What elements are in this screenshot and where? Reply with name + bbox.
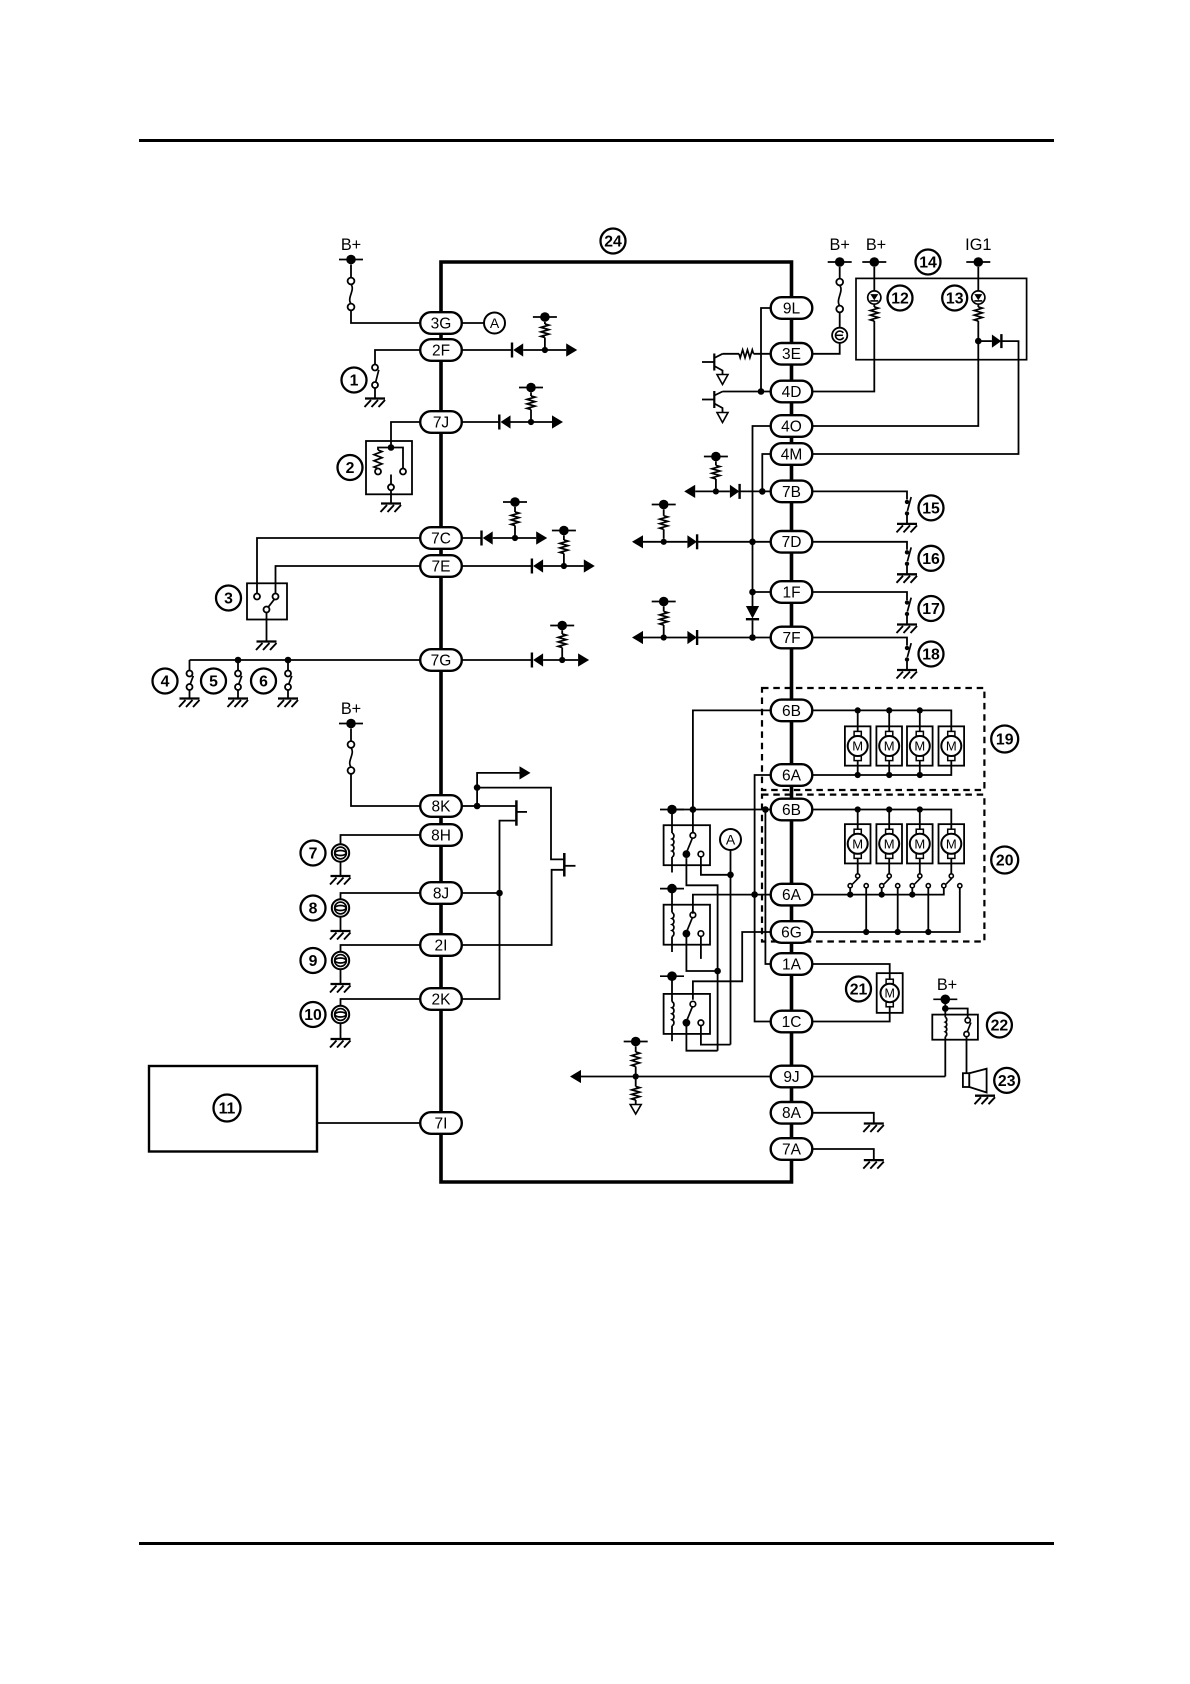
svg-text:10: 10	[304, 1007, 322, 1024]
svg-text:6B: 6B	[782, 703, 801, 720]
svg-text:B+: B+	[937, 976, 957, 994]
pull-up resistor on 2F line	[544, 322, 546, 324]
control unit 24 outline bus	[441, 262, 792, 1182]
component 10 callout	[301, 1002, 326, 1027]
svg-text:9: 9	[309, 953, 318, 970]
pin 7A (right 19)	[771, 1138, 813, 1160]
return junction motor 3 group 19	[917, 772, 923, 778]
diode arrow on 7F line	[664, 637, 688, 639]
feed stub motor 1 group 19	[857, 710, 859, 731]
wire pin 8A to ground	[812, 1113, 874, 1123]
svg-text:8H: 8H	[431, 827, 451, 844]
transistor Q2 plate	[563, 853, 566, 877]
svg-text:9L: 9L	[783, 300, 801, 317]
pull-up resistor on 7G line	[561, 630, 563, 634]
component 13 callout	[942, 286, 967, 311]
svg-text:B+: B+	[341, 700, 361, 718]
wire pin 6B group19 down to relay feed	[693, 710, 771, 809]
svg-text:15: 15	[922, 500, 940, 517]
svg-text:11: 11	[219, 1101, 236, 1118]
relay 1 box	[664, 825, 710, 865]
ground below switch 6	[278, 697, 298, 699]
svg-text:7B: 7B	[782, 484, 801, 501]
pin 2K	[420, 988, 462, 1010]
wire pin 9L down to 4D junction	[761, 308, 771, 392]
pull-up resistor on 7J line	[530, 392, 532, 396]
left arrow on 7B line	[684, 485, 695, 498]
ground below lamp 8	[331, 930, 351, 932]
wire B+ to connector 2	[350, 729, 352, 742]
svg-text:16: 16	[922, 551, 940, 568]
wire pin 2F to switch 1	[375, 350, 420, 365]
svg-text:7E: 7E	[432, 558, 451, 575]
pin 6B (right 10)	[771, 700, 813, 722]
power feed on 7D line	[652, 504, 676, 506]
component 7 callout	[301, 841, 326, 866]
transistor Q1 source stub	[516, 811, 527, 813]
junction 6A lines	[751, 891, 758, 898]
svg-text:19: 19	[996, 732, 1014, 749]
ground below lamp 7	[331, 875, 351, 877]
svg-text:12: 12	[891, 291, 909, 308]
motor M1 group 20	[845, 824, 871, 863]
pin 1F (right 8)	[771, 581, 813, 603]
pin 4M (right 5)	[771, 443, 813, 465]
svg-text:6B: 6B	[782, 802, 801, 819]
junction at 1F	[749, 589, 756, 596]
power feed on 7E line	[552, 530, 576, 532]
svg-text:1C: 1C	[782, 1014, 802, 1031]
svg-text:4O: 4O	[781, 418, 802, 435]
power feed on 7B line	[704, 456, 728, 458]
pin 6A wire to switch throws group 20	[812, 888, 944, 895]
relay 1 power feed	[660, 809, 684, 811]
junction motor 2 group 20	[886, 806, 892, 812]
resistor under LED 12	[873, 304, 875, 307]
svg-text:M: M	[914, 739, 925, 754]
Q2 emitter arrow	[714, 404, 722, 413]
wire B+ to connector	[350, 265, 352, 279]
wire relay 1 NO to A rail	[701, 857, 731, 875]
svg-text:9J: 9J	[783, 1069, 799, 1086]
component 19 callout	[991, 726, 1018, 753]
wire pin to switch 18	[812, 638, 907, 646]
6A stub motor 2 group 20	[881, 888, 883, 895]
svg-text:7A: 7A	[782, 1141, 802, 1158]
svg-text:20: 20	[996, 853, 1014, 870]
left arrow on 9J line	[570, 1070, 581, 1083]
switch 18 contacts	[905, 646, 909, 650]
wire pin 4M to 7B junction	[762, 454, 770, 491]
junction at 7B	[759, 488, 766, 495]
return stub motor 3 group 19	[919, 760, 921, 775]
right arrow on 7C line	[515, 537, 536, 539]
component 11 callout	[214, 1095, 241, 1122]
left arrow on 7D line	[632, 535, 643, 548]
motor M2 group 19	[876, 726, 902, 765]
pin 9J wire	[581, 1076, 771, 1078]
junction on 7J line	[528, 419, 534, 425]
wire junction down to pin 1A	[765, 810, 770, 965]
pin 2I	[420, 934, 462, 956]
feed stub motor 3 group 19	[919, 710, 921, 731]
diode between 1F and 7F	[752, 592, 754, 606]
wire pin 8J to lamp 8	[341, 893, 421, 899]
changeover switch of motor 3 group 20	[919, 858, 921, 873]
wire pin 7A to ground	[812, 1149, 874, 1159]
pin 1A (right 15)	[771, 953, 813, 975]
component 12 callout	[888, 286, 913, 311]
pull-up resistor on 7C line	[514, 507, 516, 512]
wire clock spring to pin 3E	[812, 343, 839, 354]
junction on 7D line	[661, 539, 667, 545]
junction on 7F line	[661, 634, 667, 640]
pin 6G wire to switch throws group 20	[812, 888, 960, 932]
open arrow to ground on 9J line	[635, 1100, 637, 1105]
wire pin 1F	[753, 591, 771, 593]
wire diode to pin 4M	[812, 341, 1018, 454]
svg-text:7F: 7F	[782, 630, 800, 647]
wire to pin 7B	[740, 490, 771, 492]
internal 2F wire to junction	[523, 349, 545, 351]
svg-text:22: 22	[991, 1018, 1009, 1035]
pin 6A wire from motor group 19	[812, 760, 951, 775]
switch 5	[237, 660, 239, 671]
transistor Q1 at pin 3E	[713, 354, 715, 371]
wire pin 2K to lamp 10	[341, 999, 421, 1006]
wire relay 3 common to common rail	[686, 1025, 717, 1051]
relay 2 NO stub	[700, 937, 702, 959]
transistor Q2 source stub	[564, 865, 575, 867]
6A stub motor 1 group 20	[849, 888, 851, 895]
pin 1C (right 16)	[771, 1011, 813, 1033]
svg-text:24: 24	[604, 234, 622, 251]
power feed on 7G line	[550, 625, 574, 627]
ground at 8A	[864, 1122, 884, 1124]
junction switch 6	[285, 657, 292, 664]
component 17 callout	[919, 596, 944, 621]
pin 6B wire to motor group 19	[812, 710, 951, 731]
component 21 callout	[846, 977, 871, 1002]
pin 6B wire to motor group 20	[812, 810, 951, 830]
relay 22 contact feed	[945, 1009, 967, 1018]
clock spring connector	[832, 328, 847, 343]
changeover switch of motor 1 group 20	[857, 858, 859, 873]
component 4 callout	[153, 669, 178, 694]
wire 7D junction to 1F junction	[752, 542, 754, 592]
wire pin 8K to junction	[462, 805, 477, 807]
component 23 callout	[994, 1068, 1019, 1093]
wire IG1 to LED 13	[977, 267, 979, 291]
lamp 7	[332, 844, 349, 861]
svg-text:6G: 6G	[781, 924, 802, 941]
junction on 7E line	[561, 563, 567, 569]
svg-text:B+: B+	[866, 236, 886, 254]
lamp 9	[332, 952, 349, 969]
relay 3 box	[664, 994, 710, 1034]
junction relay 22 feed	[942, 1005, 949, 1012]
relay 22 box	[932, 1015, 978, 1040]
relay 1 coil stub	[671, 857, 673, 873]
ground below switch 15	[897, 523, 917, 525]
wire pin to switch 17	[812, 592, 907, 600]
internal line from pin 2F: bar and left arrow	[462, 349, 512, 351]
wire pin 7J to component 2	[391, 422, 420, 445]
component 2 resistor branch	[378, 448, 391, 451]
svg-text:1A: 1A	[782, 956, 802, 973]
feed stub motor 1 group 20	[857, 810, 859, 830]
wire component 2 to ground	[390, 490, 392, 502]
junction motor 3 group 20	[917, 806, 923, 812]
component 2 callout	[338, 455, 363, 480]
pin 4O (right 4)	[771, 415, 813, 437]
relay 3 contacts	[690, 1001, 696, 1007]
component 2 pole	[390, 475, 392, 485]
pin 3E (right 2)	[771, 343, 813, 365]
internal arrow from 8K	[477, 773, 519, 788]
pin 8A (right 18)	[771, 1102, 813, 1124]
pin 7D (right 7)	[771, 531, 813, 553]
pull-up resistor on 7B line	[715, 461, 717, 465]
6G stub motor 2 group 20	[897, 888, 899, 932]
svg-text:M: M	[884, 987, 894, 1001]
speaker 23	[963, 1073, 969, 1087]
ground below lamp 10	[331, 1038, 351, 1040]
ground below switch 18	[897, 669, 917, 671]
pull-up resistor on 7F line	[663, 606, 665, 611]
ground below switch 16	[897, 573, 917, 575]
wire relay 1 top contact	[692, 810, 694, 833]
internal 7E wire to junction	[543, 565, 564, 567]
relay 3 power feed	[660, 975, 684, 977]
inline connector (2 terminals) on B+ feed	[350, 284, 353, 303]
6G stub motor 3 group 20	[927, 888, 929, 932]
return stub motor 1 group 19	[857, 760, 859, 775]
indicator LED 13	[972, 291, 985, 304]
switch 16 contacts	[905, 550, 909, 554]
B+ feed 12 power symbol	[862, 261, 886, 263]
svg-text:B+: B+	[341, 236, 361, 254]
switch 15 contacts	[905, 500, 909, 504]
A rail wire	[730, 850, 732, 1045]
component 20 callout	[991, 847, 1018, 874]
dashed box unit 20	[762, 795, 984, 942]
component 22 callout	[987, 1013, 1012, 1038]
wire component 3 to ground	[266, 613, 268, 641]
wire junction up	[476, 788, 478, 806]
6A stub motor 3 group 20	[911, 888, 913, 895]
feed stub motor 3 group 20	[919, 810, 921, 830]
ground below speaker	[975, 1095, 995, 1097]
relay 2 contacts	[690, 912, 696, 918]
junction motor 2 group 19	[886, 707, 892, 713]
lamp 10	[332, 1006, 349, 1023]
pin 7G	[420, 649, 462, 671]
junction of 8J on gate line	[496, 890, 503, 897]
wire connector to pin 8K	[351, 774, 420, 806]
indicator LED 12	[868, 291, 881, 304]
pin 7I	[420, 1112, 462, 1134]
junction at 7F	[749, 634, 756, 641]
svg-text:8: 8	[309, 901, 318, 918]
relay 3 coil stub	[671, 1026, 673, 1042]
relay 2 coil	[671, 892, 673, 913]
wire pin 1A to motor 21	[812, 964, 889, 980]
relay 2 coil stub	[671, 937, 673, 953]
inline connector on 8K feed	[350, 748, 353, 767]
power feed on 7C line	[503, 501, 527, 503]
right arrow on 7G line	[562, 659, 578, 661]
B+ feed 3E power symbol	[828, 261, 852, 263]
left arrow on 7F line	[632, 631, 643, 644]
motor M4 group 20	[939, 824, 965, 863]
svg-text:2F: 2F	[432, 342, 450, 359]
junction on 7C line	[512, 535, 518, 541]
ground below switch 4	[180, 697, 200, 699]
pin 6G wire to relay 3 top contact	[693, 932, 771, 1000]
internal 7G wire to junction	[543, 659, 562, 661]
diode arrow on 7B line	[716, 490, 730, 492]
internal line from pin 7G: bar and left arrow	[462, 659, 532, 661]
internal 7C wire to junction	[493, 537, 515, 539]
svg-text:M: M	[852, 836, 863, 851]
B+ feed top-left power symbol	[339, 259, 363, 261]
IG1 power symbol	[966, 261, 990, 263]
base resistor of Q1	[723, 353, 740, 355]
pin 6A2 wire to relay 2 top contact	[693, 895, 771, 914]
junction motor 1 group 20	[855, 806, 861, 812]
changeover switch of motor 4 group 20	[950, 858, 952, 873]
wire LED 13 to junction	[977, 321, 979, 338]
B+ feed mid-left power symbol	[339, 723, 363, 725]
svg-text:3G: 3G	[431, 315, 452, 332]
relay 22 coil	[944, 1009, 946, 1018]
wire junction down to pin 4O	[812, 341, 978, 426]
6G stub motor 1 group 20	[865, 888, 867, 932]
svg-text:3E: 3E	[782, 346, 801, 363]
wire relay 22 coil to pin 9J	[944, 1037, 946, 1077]
junction on 9J line	[633, 1073, 639, 1079]
relay 2 box	[664, 905, 710, 945]
component 9 callout	[301, 948, 326, 973]
wire pin 8J to gate line	[462, 892, 500, 894]
component 18 callout	[919, 642, 944, 667]
pull-up resistor on 7E line	[563, 535, 565, 540]
component 8 callout	[301, 896, 326, 921]
resistor under LED 13	[977, 304, 979, 307]
wire relay 22 to speaker	[966, 1037, 968, 1074]
ground below switch 17	[897, 623, 917, 625]
power feed on 2F line	[533, 316, 557, 318]
right arrow on 7J line	[531, 421, 552, 423]
svg-text:21: 21	[850, 982, 868, 999]
page top rule	[139, 139, 1054, 142]
motor 21	[877, 973, 903, 1013]
wire B+ to LED 12	[873, 267, 875, 291]
relay 1 coil	[671, 813, 673, 834]
svg-text:1: 1	[350, 373, 359, 390]
right arrow on 2F line	[545, 349, 566, 351]
pin 6A (right 13)	[771, 884, 813, 906]
wire lamp 9 to ground	[340, 969, 342, 983]
svg-text:5: 5	[209, 674, 218, 691]
junction at 7D	[749, 539, 756, 546]
ground below lamp 9	[331, 983, 351, 985]
component 2 internal node	[388, 444, 395, 451]
changeover switch of motor 2 group 20	[888, 858, 890, 873]
pin 9L (right 1)	[771, 297, 813, 319]
wire 8K to transistor Q1	[477, 805, 516, 807]
feed stub motor 2 group 20	[888, 810, 890, 830]
svg-text:4: 4	[161, 674, 170, 691]
svg-text:M: M	[884, 836, 895, 851]
internal line from pin 7C: bar and left arrow	[462, 537, 482, 539]
svg-text:7C: 7C	[431, 530, 451, 547]
wire motor 21 to pin 1C	[812, 1006, 889, 1022]
dashed box unit 19	[762, 688, 984, 790]
pin 8J	[420, 882, 462, 904]
motor M3 group 19	[907, 726, 933, 765]
ground below switch 5	[228, 697, 248, 699]
right arrow on 7E line	[564, 565, 584, 567]
wire pin 6A group19 down to 6A2 row	[755, 775, 771, 895]
svg-text:B+: B+	[830, 236, 850, 254]
motor M2 group 20	[876, 824, 902, 863]
component 15 callout	[919, 495, 944, 520]
control unit 24 callout	[601, 229, 626, 254]
pin 7C	[420, 527, 462, 549]
power feed on 7J line	[519, 387, 543, 389]
component 14 box	[856, 278, 1027, 359]
lamp 8	[332, 899, 349, 916]
svg-text:3: 3	[224, 591, 233, 608]
component 5 callout	[201, 669, 226, 694]
wire pin 7C to component 3	[257, 538, 420, 594]
svg-text:7G: 7G	[431, 652, 452, 669]
junction relay 1 top contact	[690, 806, 697, 813]
Q1 emitter arrow	[714, 366, 722, 375]
svg-text:7: 7	[309, 846, 318, 863]
wire relay 1 common to common rail	[686, 858, 717, 1051]
lower resistor on 9J line	[635, 1077, 637, 1087]
junction on 7G line	[559, 657, 565, 663]
wire B+ to relay 22	[944, 1004, 946, 1005]
component 14 callout	[916, 250, 941, 275]
svg-text:M: M	[946, 739, 957, 754]
svg-text:7J: 7J	[433, 414, 449, 431]
svg-text:8A: 8A	[782, 1105, 802, 1122]
page bottom rule	[139, 1542, 1054, 1545]
pin 7J	[420, 411, 462, 433]
pin 8K	[420, 795, 462, 817]
switch 17 contacts	[905, 600, 909, 604]
motor M3 group 20	[907, 824, 933, 863]
B+ feed relay 22 power symbol	[933, 998, 957, 1000]
transistor Q1 gate wire to 8J and 2K	[462, 821, 517, 999]
component 2 box	[366, 441, 412, 494]
pin 6B (right 12)	[771, 799, 813, 821]
svg-text:2: 2	[346, 460, 355, 477]
svg-text:17: 17	[922, 601, 940, 618]
pin 7F (right 9)	[771, 627, 813, 649]
svg-text:M: M	[852, 739, 863, 754]
internal line from pin 7J: bar and left arrow	[462, 421, 500, 423]
wire component 11 to pin 7I	[317, 1122, 420, 1124]
internal 7J wire to junction	[511, 421, 532, 423]
node A marker at 3G	[462, 322, 484, 324]
wire pin 7G to switches 4 5 6	[190, 659, 421, 661]
pin 4D (right 3)	[771, 381, 813, 403]
